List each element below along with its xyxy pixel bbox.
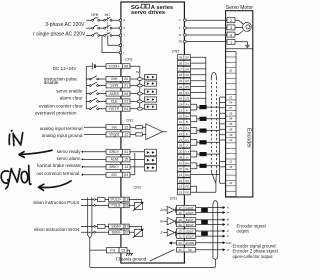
svg-text:A: A [227,211,229,215]
resistor termination Z [199,129,206,133]
wire output leader row 2 [82,159,84,161]
svg-text:Vin: Vin [112,126,117,130]
svg-text:S: S [123,26,125,30]
svg-text:05: 05 [229,111,233,115]
svg-text:ALRS: ALRS [110,92,120,96]
svg-text:SIGN-: SIGN- [112,231,121,235]
connector CN1 pin SIGN+ 19 [109,224,130,229]
svg-text:24: 24 [179,103,183,107]
connector CN1 pin PULS- 06 [109,203,130,208]
svg-text:B+: B+ [185,114,189,118]
handwritten note GND [1,166,31,189]
connector CN1 pin INH 20 [106,76,130,81]
connector CN1 pin 17 AOUT [176,205,195,210]
connector CN2 pin 03 0V [177,90,190,95]
svg-text:03: 03 [124,173,128,177]
svg-text:r: r [123,43,124,47]
wire CN2 A pair [191,104,220,110]
svg-text:Z+: Z+ [185,126,189,130]
switch alarm clear [86,90,106,94]
node SIGN junctions [94,226,96,228]
optocoupler input INH [145,75,157,80]
wire encoder output row Z [196,234,229,238]
svg-text:05: 05 [179,218,183,222]
connector CN1 pin ALRS 09 [106,91,130,96]
svg-text:B: B [160,219,163,223]
svg-text:1: 1 [230,41,232,45]
terminal S [119,26,125,30]
svg-text:16: 16 [179,179,183,183]
wire CN2 W pair [191,163,220,169]
svg-text:0V: 0V [185,79,189,83]
svg-text:08: 08 [124,65,128,69]
optocoupler input SON [145,81,157,86]
connector CN2 pin 18 5V [177,72,190,77]
svg-text:FG: FG [185,185,190,189]
svg-text:BRK+: BRK+ [109,165,119,169]
wire SIGN pair [81,226,109,232]
svg-text:0V: 0V [185,179,189,183]
svg-text:GND: GND [226,241,232,245]
svg-text:05: 05 [179,56,183,60]
connector CN1 pin 05 BOUT [176,218,195,223]
svg-text:AOUT: AOUT [186,206,194,210]
svg-text:ALM: ALM [111,158,118,162]
svg-text:23: 23 [179,229,183,233]
svg-text:CN1: CN1 [134,185,142,189]
connector CN1 pin BRK+ 14 [106,164,130,169]
optocoupler output 1 [145,149,157,156]
svg-text:01: 01 [124,150,128,154]
wire PULS pair [81,200,109,206]
resistor R sign [97,225,105,229]
resistor analog Vingnd [136,133,143,136]
wire CN2 U pair [191,139,220,145]
servo motor box [226,5,254,197]
svg-text:13: 13 [229,138,233,142]
switch servo enable [86,82,106,86]
connector CN2 pin 09 U- [177,143,190,148]
resistor termination U [199,140,206,144]
svg-text:5V: 5V [136,70,140,74]
connector CN2 pin 20 V+ [177,149,190,154]
svg-text:BOUT: BOUT [186,218,194,222]
svg-text:A: A [160,208,163,212]
svg-text:Z-: Z- [186,132,189,136]
svg-text:output: output [237,228,250,233]
svg-text:PE: PE [179,40,183,44]
svg-text:CN1: CN1 [125,57,133,61]
svg-text:analog input terminal: analog input terminal [40,126,83,131]
connector CN1 pin 11 ZOUT [176,234,195,239]
svg-text:21: 21 [124,84,128,88]
wire motor pins to winding [235,20,243,34]
wire encoder output row A [196,206,229,210]
svg-text:19: 19 [179,161,183,165]
svg-text:11: 11 [179,235,182,239]
svg-text:AOUT: AOUT [186,211,194,215]
svg-text:ZGND: ZGND [186,241,194,245]
shield encoder output cable [213,201,218,260]
connector CN2 pin 14 FG [177,184,190,189]
optocoupler PULS [129,200,144,211]
resistor termination output Z [201,232,208,236]
svg-text:U: U [179,18,181,22]
optocoupler input ALRS [145,89,157,94]
svg-text:5V: 5V [185,73,189,77]
connector CN1 pin 09 BOUT [176,222,195,227]
connector CN1 pin 02 ZGND [176,241,195,246]
shield pulse cable [88,197,92,267]
terminal W and wire to motor [179,33,227,37]
svg-text:02: 02 [229,68,233,72]
wire input row SON [130,85,145,87]
connector CN1 pin PULS+ 18 [109,197,130,202]
svg-text:A-: A- [186,108,189,112]
wire CN2 5V group [191,57,206,75]
connector CN2 pin 12 A- [177,107,190,112]
encoder pin column [226,52,236,197]
svg-text:01: 01 [179,248,183,252]
svg-text:hanical brake release: hanical brake release [37,163,81,168]
wire encoder output row B [196,223,229,227]
svg-text:15: 15 [124,158,128,162]
wire MC to drive terminals R S T [112,20,119,35]
svg-text:PULS-: PULS- [112,204,122,208]
svg-text:3-phase AC 220V: 3-phase AC 220V [45,22,85,28]
wire encoder output row Z [196,229,229,233]
svg-text:overtravel protection: overtravel protection [35,110,77,115]
connector CN2 pin 13 GN [177,172,190,177]
wire 3-phase input stubs [86,20,92,35]
wire op-amp output [163,131,167,133]
title SG series [131,4,173,16]
connector CN2 pin 15 FG [177,190,190,195]
svg-text:R: R [123,18,125,22]
svg-text:15: 15 [179,191,183,195]
svg-text:A+: A+ [185,103,189,107]
handwritten note in [9,130,22,146]
switch deviation counter clear [86,98,106,102]
svg-text:CN1: CN1 [126,119,134,123]
wire encoder output row B [196,218,229,222]
wire output leader row 4 [82,174,84,176]
connector CN1 pin DG 03 [106,172,130,177]
wire COM+ internal feed [130,66,140,109]
svg-text:Chassis ground: Chassis ground [116,256,147,261]
terminal R [119,18,125,22]
svg-text:Encoder: Encoder [245,128,251,148]
motor pin 1 [227,39,235,44]
svg-text:12: 12 [179,108,183,112]
node PULS junctions [94,199,96,201]
svg-text:servo alarm: servo alarm [57,156,81,161]
svg-text:alarm clear: alarm clear [60,96,83,101]
resistor termination output A [201,208,208,212]
svg-text:03: 03 [229,95,233,99]
connector CN2 pin 17 5V [177,66,190,71]
wire encoder pin stubs [220,97,226,183]
svg-text:5V: 5V [185,56,189,60]
svg-text:2: 2 [230,19,232,23]
svg-text:12: 12 [124,126,128,130]
connector CN1 pin SON 21 [106,83,130,88]
wire input common bus [85,66,87,109]
connector CN2 pin 11 B- [177,119,190,124]
svg-text:30: 30 [179,211,183,215]
svg-text:12: 12 [229,160,233,164]
svg-text:r single phase AC 220V: r single phase AC 220V [33,31,86,37]
line driver A [160,206,176,213]
svg-text:sition instruction PULS: sition instruction PULS [33,200,79,205]
optocoupler input RSTP [145,104,157,109]
svg-text:01: 01 [179,79,183,83]
wire input row INH [130,78,145,80]
svg-text:DG: DG [112,173,118,177]
svg-text:22: 22 [179,126,183,130]
svg-text:SIGN+: SIGN+ [111,225,121,229]
svg-text:07: 07 [229,106,233,110]
svg-text:02: 02 [179,85,183,89]
svg-text:CLE: CLE [111,100,119,104]
connector CN2 pin 19 W+ [177,160,190,165]
connector CN2 pin 04 0V [177,96,190,101]
svg-text:FG: FG [110,248,115,252]
motor frame ground [235,42,250,48]
motor pin 4 [227,32,235,37]
svg-text:DC 12~24V: DC 12~24V [53,66,78,71]
svg-text:NFB: NFB [91,13,99,17]
resistor input INH [137,78,142,81]
svg-text:servo enable: servo enable [56,88,83,93]
svg-text:17: 17 [179,67,183,71]
svg-text:Vingnd: Vingnd [109,133,119,137]
terminal T [119,34,125,38]
switch instruction pulse disable [86,76,106,80]
svg-text:MC: MC [105,13,111,17]
optocoupler input CLE [145,97,157,102]
motor pin 3 [227,25,235,30]
connector CN2 pin 10 Z- [177,131,190,136]
wire CN2 GND row [191,174,220,176]
wire encoder distribution bus [219,97,221,183]
svg-text:disable: disable [44,80,59,85]
resistor termination V [199,152,206,156]
servo drive main box [121,2,184,263]
svg-text:0V: 0V [185,85,189,89]
svg-text:01: 01 [229,181,233,185]
svg-text:eviation counter clear: eviation counter clear [39,103,83,108]
svg-text:5V: 5V [185,67,189,71]
svg-text:CN2: CN2 [172,50,180,54]
svg-text:analog input ground: analog input ground [42,133,83,138]
wire output leader row 1 [82,151,84,153]
svg-text:14: 14 [179,185,183,189]
svg-text:B: B [227,223,229,227]
svg-text:5V: 5V [185,61,189,65]
svg-text:18: 18 [125,198,129,202]
svg-text:07: 07 [125,231,129,235]
wire input row CLE [130,100,145,102]
svg-text:ZOUT: ZOUT [186,229,194,233]
connector CN2 pin 06 5V [177,60,190,65]
connector CN1 pin Vin 12 [106,125,130,130]
svg-text:0V: 0V [185,91,189,95]
svg-text:07: 07 [179,167,183,171]
wire diagonal chassis link [150,250,174,261]
svg-text:PULS+: PULS+ [111,198,122,202]
svg-text:A: A [227,206,229,210]
svg-text:02: 02 [179,241,183,245]
resistor R pulse [97,198,105,202]
resistor input RSTP [137,107,142,110]
svg-text:V+: V+ [185,150,189,154]
wire CN2 0V group [191,81,206,99]
svg-text:RSTP: RSTP [109,107,119,111]
connector CN2 pin 08 V- [177,154,190,159]
svg-text:11: 11 [179,120,182,124]
svg-text:B-: B- [186,120,189,124]
wire analog internal [130,127,146,134]
svg-text:20: 20 [179,150,183,154]
svg-text:09: 09 [179,223,183,227]
wire encoder output row GND [196,241,232,245]
svg-text:W: W [179,33,182,37]
wire output internal rows [130,152,145,175]
svg-text:t: t [123,51,124,55]
connector CN1 pin SRDY 01 [106,149,130,154]
connector CN2 pin 23 B+ [177,113,190,118]
connector CN2 pin 07 W- [177,166,190,171]
svg-text:06: 06 [125,204,129,208]
svg-text:CN1: CN1 [170,197,178,201]
svg-text:09: 09 [124,92,128,96]
line driver B [160,218,176,225]
wire shield to FG [90,249,107,251]
svg-text:19: 19 [125,225,129,229]
svg-text:3: 3 [230,26,232,30]
svg-text:06: 06 [229,122,233,126]
svg-text:08: 08 [179,155,183,159]
connector CN1 pin CLE 23 [106,99,130,104]
op-amp analog input [146,124,163,140]
optocoupler SIGN [129,226,144,237]
connector CN2 pin 05 5V [177,55,190,60]
resistor input CLE [137,100,142,103]
connector CN1 pin 23 ZOUT [176,229,195,234]
connector CN2 pin 02 0V [177,84,190,89]
svg-text:25: 25 [121,248,125,252]
breaker NFB [91,13,99,36]
wire input row RSTP [130,108,145,110]
svg-text:servo ready: servo ready [56,149,81,154]
wire tap to control terminal r [108,36,119,46]
chassis ground symbol [126,250,133,256]
svg-text:U+: U+ [185,138,189,142]
svg-text:V-: V- [186,155,189,159]
connector CN1 pin FG 25 [107,247,128,253]
svg-text:21: 21 [179,138,183,142]
svg-text:Z: Z [160,231,162,235]
motor pin 2 [227,18,235,23]
svg-text:COM+: COM+ [109,65,119,69]
wire analog leader lines [84,127,106,134]
wire CN2 B pair [191,116,220,122]
svg-text:Z: Z [227,229,229,233]
svg-text:23: 23 [124,100,128,104]
svg-text:17: 17 [179,206,183,210]
terminal U and wire to motor [179,18,227,22]
svg-text:out common terminal.: out common terminal. [36,171,80,176]
svg-text:10: 10 [179,132,183,136]
wire input row ALRS [130,93,145,95]
contactor MC [104,13,112,36]
connector CN2 pin 22 Z+ [177,125,190,130]
connector CN1 pin 01 CZ [176,248,195,253]
shield encoder cable [211,72,216,78]
wire CN2 V pair [191,151,220,157]
resistor termination B [199,117,206,121]
wire chassis bottom [90,260,216,268]
connector CN1 pin COM+ 08 [106,64,130,69]
connector CN1 pin Vingnd 13 [106,132,130,137]
connector CN1 pin 30 AOUT [176,210,195,215]
resistor termination W [199,164,206,168]
svg-text:servo drives: servo drives [131,10,165,16]
wire NFB to MC [100,20,104,35]
handwritten arrow to servo ready [19,150,52,157]
terminal t [119,51,124,55]
svg-text:U-: U- [186,144,189,148]
svg-text:0V: 0V [185,97,189,101]
optocoupler output 3 [145,164,157,171]
resistor termination A [199,105,206,109]
svg-text:14: 14 [124,165,128,169]
svg-text:sition instruction SIGN: sition instruction SIGN [34,227,79,232]
svg-text:W-: W- [185,167,189,171]
svg-text:open-collector output: open-collector output [233,254,274,259]
wire encoder output row Z [196,248,229,252]
svg-text:04: 04 [124,107,128,111]
svg-text:15: 15 [229,165,233,169]
resistor termination output B [201,220,208,224]
svg-text:V: V [179,26,181,30]
svg-text:Z: Z [227,248,229,252]
terminal r [119,43,124,47]
svg-text:INH: INH [111,77,118,81]
wire output leader row 3 [82,166,84,168]
svg-text:SON: SON [110,84,118,88]
svg-text:FG: FG [185,191,190,195]
svg-text:BOUT: BOUT [186,223,194,227]
svg-text:CZ: CZ [188,248,192,252]
svg-text:4: 4 [230,33,232,37]
connector CN2 pin 24 A+ [177,102,190,107]
line driver Z [160,229,176,236]
resistor analog Vin [136,126,143,129]
svg-text:09: 09 [179,144,183,148]
connector CN2 pin 16 0V [177,178,190,183]
resistor input ALRS [137,92,142,95]
terminal PE and wire to motor [179,40,227,44]
svg-text:06: 06 [179,61,183,65]
svg-text:SRDY: SRDY [109,150,120,154]
svg-text:13: 13 [179,173,183,177]
wire ZGND hook [172,242,177,244]
terminal V and wire to motor [179,26,227,30]
wire tap to control terminal t [102,36,119,53]
handwritten arrow to GND [39,181,72,191]
